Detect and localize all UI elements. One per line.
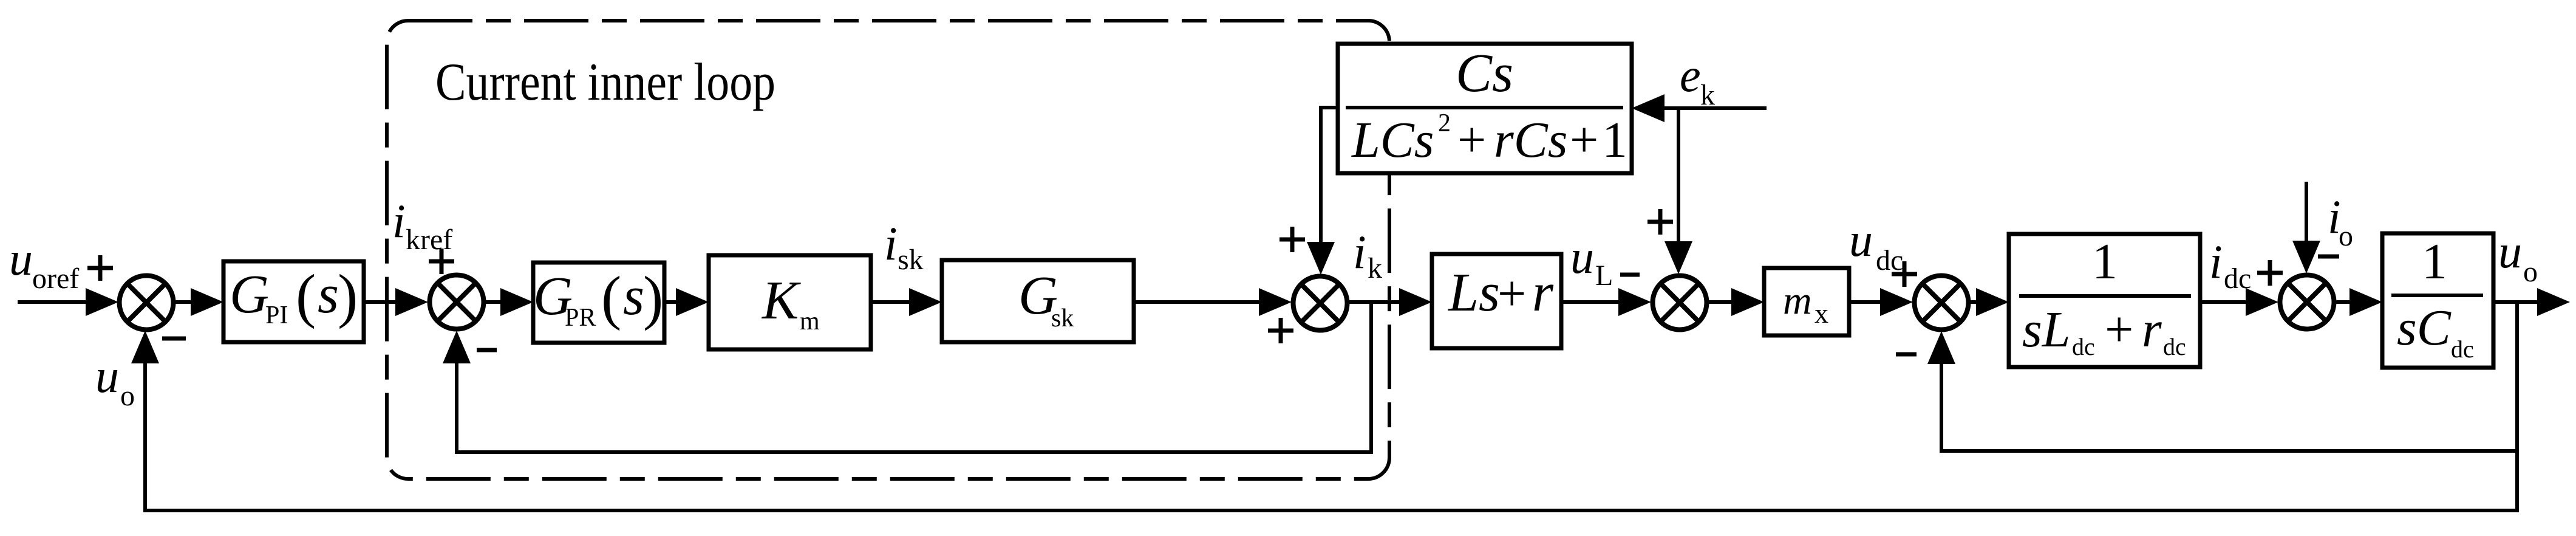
wire: e_k input into Cs block (1664, 106, 1767, 110)
svg-text:Ls: Ls (1447, 263, 1500, 323)
wire: G_sk to junction3 (1134, 300, 1263, 304)
svg-text:2: 2 (1438, 109, 1451, 137)
sign - below junction5 (1896, 352, 1917, 357)
svg-text:(: ( (296, 262, 316, 329)
svg-text:u: u (95, 349, 119, 402)
svg-text:o: o (2523, 256, 2538, 288)
wire: G_PI to junction2 (364, 300, 401, 304)
svg-text:1: 1 (2422, 233, 2447, 290)
svg-text:): ) (643, 264, 663, 331)
wire: dc-loop feedback to junction5 (1941, 364, 2517, 451)
svg-text:PR: PR (565, 304, 596, 332)
svg-text:u: u (9, 232, 33, 285)
svg-text:dc: dc (1876, 244, 1903, 277)
svg-text:x: x (1814, 298, 1828, 329)
svg-text:i: i (2209, 235, 2223, 288)
wire: K_m to G_sk (871, 300, 917, 304)
svg-text:i: i (1353, 225, 1366, 278)
svg-text:PI: PI (265, 301, 288, 329)
svg-text:m: m (1783, 278, 1812, 323)
svg-text:k: k (1700, 79, 1715, 111)
sign + at junction6 (2257, 271, 2283, 275)
block m_x (1764, 268, 1849, 335)
svg-text:sC: sC (2397, 300, 2452, 356)
wire: junction6 to 1/(sCdc) block (2336, 300, 2356, 304)
sign - at junction4 (u_L) (1620, 273, 1640, 277)
svg-text:Current inner loop: Current inner loop (435, 53, 775, 112)
svg-text:G: G (230, 264, 269, 325)
summing junction 2 (430, 275, 484, 329)
svg-text:k: k (1368, 252, 1382, 284)
svg-text:s: s (318, 264, 339, 325)
svg-text:K: K (761, 270, 801, 331)
wire: junction5 to 1/(sLdc+rdc) block (1970, 300, 1983, 304)
svg-text:i: i (392, 194, 406, 247)
svg-text:dc: dc (2451, 335, 2474, 363)
wire: input u_oref (18, 300, 91, 304)
sign + left-below junction3 (1268, 329, 1293, 333)
svg-text:+: + (1457, 112, 1486, 168)
block G_PI(s) (223, 261, 364, 342)
block G_PR(s) (533, 263, 664, 343)
svg-text:1: 1 (2092, 233, 2118, 290)
svg-text:s: s (623, 266, 644, 326)
sign + above junction4 (1647, 220, 1673, 224)
wire: e_k branch down to junction4 (1677, 108, 1680, 241)
svg-text:+: + (1570, 112, 1598, 168)
block 1/(sLdc+rdc) (2009, 234, 2200, 367)
svg-text:+: + (1498, 266, 1526, 322)
sign + at junction1 (87, 266, 113, 270)
svg-text:u: u (2498, 225, 2522, 278)
svg-text:o: o (2339, 220, 2353, 252)
svg-text:rCs: rCs (1494, 112, 1567, 168)
sign + at junction5 (1892, 272, 1917, 277)
svg-text:LCs: LCs (1351, 112, 1434, 168)
wire: output u_o (2493, 300, 2538, 304)
block 1/(sCdc) (2382, 233, 2493, 368)
svg-text:dc: dc (2163, 333, 2186, 360)
svg-text:sk: sk (1051, 304, 1074, 332)
svg-text:e: e (1680, 49, 1701, 101)
sign - at junction2 (477, 348, 497, 352)
svg-text:r: r (2142, 301, 2162, 358)
wire: outer feedback u_o to junction1 (145, 302, 2517, 510)
wire: junction4 to m_x (1708, 300, 1737, 304)
svg-text:+: + (2105, 301, 2133, 358)
svg-text:Cs: Cs (1456, 43, 1513, 103)
svg-text:u: u (1849, 213, 1873, 266)
svg-text:oref: oref (32, 263, 79, 295)
svg-text:1: 1 (1602, 112, 1627, 168)
svg-text:kref: kref (406, 224, 452, 256)
svg-text:sL: sL (2022, 301, 2070, 358)
summing junction 1 (120, 276, 174, 330)
summing junction 4 (1653, 276, 1707, 330)
svg-text:o: o (120, 380, 135, 412)
wire: Cs block output down to junction3 (1321, 108, 1338, 242)
summing junction 5 (1915, 276, 1969, 330)
wire: junction1 to G_PI (174, 300, 194, 304)
svg-text:sk: sk (898, 244, 924, 276)
wire: Ls+r to junction4 (1561, 300, 1621, 304)
svg-text:): ) (338, 262, 358, 329)
summing junction 6 (2280, 275, 2334, 329)
wire: i_k feedback to junction2 (457, 302, 1371, 452)
wire: junction3 to Ls+r block (1349, 300, 1403, 304)
svg-text:r: r (1532, 263, 1554, 323)
block Ls+r (1432, 254, 1561, 348)
svg-text:m: m (800, 308, 820, 335)
sign - at junction1 (162, 337, 186, 341)
sign + above junction3 (1279, 238, 1305, 242)
sign + at junction2 (429, 259, 454, 264)
wire: G_PR to K_m (664, 300, 683, 304)
svg-text:L: L (1595, 259, 1613, 292)
wire: i_o input down to junction6 (2305, 182, 2308, 241)
svg-text:(: ( (601, 264, 621, 331)
block G_sk (942, 260, 1134, 342)
svg-text:dc: dc (2072, 333, 2095, 360)
wire: 1/(sLdc+rdc) to junction6 (2200, 300, 2250, 304)
wire: m_x to junction5 (1849, 300, 1886, 304)
dashed boundary: current inner loop region (387, 21, 1389, 479)
sign - at junction6 (i_o) (2318, 255, 2339, 259)
svg-text:u: u (1570, 230, 1594, 283)
svg-text:dc: dc (2224, 263, 2251, 295)
wire: junction2 to G_PR (485, 300, 507, 304)
block K_m (709, 255, 871, 349)
block Cs/(LCs^2+rCs+1) (1338, 44, 1632, 173)
summing junction 3 (1293, 277, 1348, 331)
svg-text:i: i (884, 217, 898, 270)
